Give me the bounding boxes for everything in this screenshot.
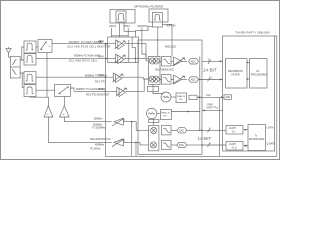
wire splitter to RX VCO — [153, 92, 163, 94]
svg-text:DAC: DAC — [179, 144, 184, 147]
wire row A — [52, 43, 116, 45]
svg-text:600MHz TO 6GHz BND: 600MHz TO 6GHz BND — [74, 55, 101, 58]
wire T2 input from TX row 1 — [64, 117, 111, 122]
arrowhead bus I — [220, 60, 223, 62]
wire TX splitter — [152, 119, 154, 126]
DAC I — [177, 128, 187, 133]
svg-text:PROCESSING: PROCESSING — [249, 139, 265, 141]
RX lowpass filter I box — [162, 57, 172, 67]
rx processing box — [250, 59, 268, 89]
wire filter FB1a to switch SW1 — [36, 46, 38, 48]
svg-text:FRAC-N: FRAC-N — [161, 112, 170, 115]
wire F2 left leg — [136, 27, 153, 37]
decimation filter box — [226, 59, 248, 89]
node spine tx bus — [199, 130, 201, 132]
wire row D to chip — [125, 79, 148, 91]
svg-text:RCV PT3: RCV PT3 — [95, 80, 106, 83]
RX lowpass filter Q box — [162, 75, 172, 85]
svg-text:600MHz TO 10GHz: 600MHz TO 10GHz — [85, 74, 108, 77]
diplexer divider — [10, 66, 20, 68]
node tx q — [245, 145, 247, 147]
wire row B to chip — [124, 57, 149, 59]
svg-text:ADC: ADC — [191, 60, 196, 63]
port leg MON — [127, 28, 129, 37]
port leg AAUX — [111, 28, 113, 37]
TX Q bus tick — [208, 143, 211, 147]
svg-text:Q DATA: Q DATA — [267, 143, 276, 146]
antenna ANT1 — [6, 47, 11, 57]
wire LPF I to DAC I — [171, 129, 177, 131]
page background — [0, 0, 280, 160]
TX mixer Q circle — [150, 142, 156, 148]
filter FB2b glyph — [26, 87, 34, 94]
wire T1 output up to FB2b — [30, 97, 48, 106]
wire row B — [36, 57, 116, 59]
wire TX row 1 — [123, 122, 148, 131]
arrow decim to rx proc top — [247, 62, 249, 64]
wire TX row 2 — [123, 142, 148, 145]
svg-text:FILTER: FILTER — [232, 74, 240, 77]
PLL1 box — [176, 93, 187, 103]
node row C — [105, 76, 107, 78]
LNA row A — [115, 40, 126, 50]
svg-text:ADC: ADC — [191, 79, 196, 82]
long routing wire around the bottom and right — [105, 36, 276, 156]
wire DIP/2TR down into chip — [142, 28, 146, 58]
wire VCO to PLL1 — [171, 96, 176, 98]
wire SW1 down to junction — [46, 53, 48, 98]
transceiver chip box — [138, 40, 202, 154]
svg-text:DC2 AND RCV0 CELL MONITOR: DC2 AND RCV0 CELL MONITOR — [68, 46, 111, 49]
svg-text:OPTIONAL FILTERS: OPTIONAL FILTERS — [134, 4, 163, 8]
wire DAC I to chip edge — [187, 129, 202, 131]
optional filter bank F1 outer box — [110, 10, 135, 24]
wire LPF Q to VGA Q — [160, 79, 174, 81]
RX I data bus to host — [202, 60, 223, 62]
svg-text:MSC102: MSC102 — [165, 45, 176, 49]
svg-text:PROCESSING: PROCESSING — [251, 74, 267, 77]
node TX I bus — [201, 130, 203, 132]
wire SW2 out to row D — [70, 88, 74, 91]
arrowhead bus Q — [220, 79, 223, 81]
optional filter F1 element — [116, 11, 126, 22]
wire splitter to mixers — [152, 85, 154, 87]
ADC I — [189, 59, 199, 64]
TX LPF Q glyph — [163, 143, 170, 147]
clock spine vertical — [199, 57, 201, 131]
wire TX VCO to PLL2 — [157, 113, 161, 115]
switch SW1 box — [38, 40, 52, 53]
bundle wire inside LNA block — [128, 40, 130, 62]
wire FB2b out to switch SW2 — [36, 89, 55, 91]
diplexer highpass glyph — [12, 60, 17, 65]
wire row D — [74, 90, 117, 92]
wire diplexer bottom out — [20, 73, 24, 87]
filter FB1a glyph — [26, 43, 34, 50]
junction node vertical row A — [105, 43, 107, 45]
PLL2 box — [160, 110, 171, 120]
svg-text:GPIO: GPIO — [207, 103, 213, 106]
optional filter bank F2 outer box — [149, 9, 168, 22]
filter FB2a — [24, 72, 36, 84]
arrowhead GPIO — [202, 109, 205, 111]
switch SW2 symbol — [59, 86, 69, 94]
TX 0/90 phase splitter — [149, 119, 159, 122]
svg-text:RXM: RXM — [98, 88, 103, 91]
svg-text:TO 500MHz: TO 500MHz — [92, 127, 106, 130]
node TX row 2 — [135, 142, 137, 144]
wire row C — [36, 76, 114, 78]
TX I bus tick — [208, 128, 211, 132]
RX LPF Q glyph — [163, 77, 170, 81]
svg-text:TO 6GHz: TO 6GHz — [90, 148, 101, 151]
filter FB1b glyph — [26, 56, 34, 63]
clock source box — [224, 95, 231, 100]
node row D — [105, 91, 107, 93]
svg-text:14-BIT: 14-BIT — [198, 136, 212, 141]
svg-text:14-BIT: 14-BIT — [229, 144, 236, 146]
svg-text:MON: MON — [124, 24, 130, 28]
node PLL2 out — [187, 111, 189, 113]
node spine bus Q — [199, 79, 201, 81]
TX Q bus from host — [202, 144, 226, 146]
TX mixer I circle — [151, 127, 157, 133]
svg-text:Tx Q: Tx Q — [232, 147, 237, 149]
diplexer lowpass glyph — [12, 70, 17, 75]
wire F1 right leg down — [123, 23, 125, 31]
svg-text:AAUX: AAUX — [109, 24, 116, 28]
VGA Q triangle — [173, 75, 186, 84]
switch SW1 symbol — [41, 42, 51, 50]
diplexer box — [10, 56, 20, 78]
svg-text:G: G — [47, 114, 49, 116]
wire row A to chip — [124, 44, 149, 61]
VGA I triangle — [173, 57, 186, 66]
RX quadrature mixer box — [149, 57, 161, 85]
svg-text:THIRD-PARTY [BB/SW]: THIRD-PARTY [BB/SW] — [236, 31, 270, 35]
wire T1 input from TX row 2 — [48, 117, 111, 142]
node TX row 1 — [131, 121, 133, 123]
TX I bus from host — [202, 129, 226, 131]
wire F2 bottom leg into chip — [157, 27, 159, 57]
wire LPF Q to DAC Q — [171, 144, 177, 146]
svg-text:DIP/2TR: DIP/2TR — [138, 24, 148, 28]
optional filter F2 element — [153, 13, 163, 28]
wire row C to chip — [122, 77, 149, 79]
image border frame — [1, 1, 280, 160]
wire F1 left leg down to LNA block — [119, 23, 121, 37]
svg-text:I DATA: I DATA — [267, 127, 275, 130]
svg-text:RCV PT2 MONITOR: RCV PT2 MONITOR — [86, 94, 109, 97]
wire VGA Q to ADC Q — [182, 79, 187, 81]
TX LPF I glyph — [163, 128, 170, 132]
tx processing box — [248, 125, 266, 151]
RX mixer Q circles — [149, 76, 159, 82]
bus I width tick — [208, 60, 211, 64]
filter F2 bandpass glyph — [154, 14, 161, 20]
TX driver amp row 2 — [112, 139, 124, 147]
svg-text:DAC: DAC — [179, 129, 184, 132]
arrow decim to rx proc bottom — [247, 78, 249, 80]
TX lowpass filter Q box — [162, 140, 172, 149]
wire PLL2 right to clock spine — [171, 111, 199, 113]
14-bit Tx Q box — [226, 142, 243, 151]
wire tx proc to tx Q box — [245, 145, 248, 147]
bundle wire jog inside LNA block — [132, 37, 135, 63]
vertical routing wire stub into host — [219, 97, 221, 156]
RX Q data bus to host — [199, 79, 223, 81]
DAC Q — [177, 142, 187, 147]
TX driver amp row 1 — [112, 118, 124, 126]
wire VGA I to ADC I — [182, 60, 187, 62]
TX lowpass filter I box — [162, 126, 172, 135]
RX 0/90 phase splitter — [148, 87, 159, 92]
svg-text:(4-BIT TTL): (4-BIT TTL) — [207, 107, 219, 109]
svg-text:MXR IN: MXR IN — [166, 23, 175, 27]
filter FB2b — [24, 85, 36, 97]
wire jog upper h2 — [124, 30, 136, 32]
ADC Q — [189, 77, 199, 82]
TX quadrature mixer box — [149, 125, 159, 150]
RX LPF I glyph — [163, 59, 170, 63]
svg-text:FRAC-N: FRAC-N — [177, 95, 186, 98]
PA amplifier T1 — [44, 106, 53, 117]
PA amplifier T2 — [60, 106, 70, 117]
svg-text:14-BIT: 14-BIT — [203, 68, 217, 73]
node bundle row B — [135, 58, 137, 60]
svg-text:DC2 AND RCH 50: DC2 AND RCH 50 — [90, 138, 111, 141]
wire DAC Q to chip edge — [187, 144, 202, 146]
bus Q width tick — [208, 78, 211, 82]
svg-text:Tx I: Tx I — [232, 131, 236, 133]
svg-text:14-BIT: 14-BIT — [229, 128, 236, 130]
svg-text:RXM: RXM — [98, 74, 103, 77]
svg-text:DC2 AND RCV0 CELL: DC2 AND RCV0 CELL — [69, 59, 98, 62]
RX VCO oscillator — [161, 92, 171, 102]
GPIO wire — [203, 109, 223, 111]
node TX Q bus — [201, 144, 203, 146]
wire jog lower h1 — [112, 35, 129, 37]
svg-text:450MHz: 450MHz — [95, 143, 105, 146]
14-bit Tx I box — [226, 126, 243, 135]
filter FB2a glyph — [26, 74, 34, 81]
filter FB1b — [24, 54, 36, 65]
TX VCO oscillator — [147, 108, 157, 118]
svg-text:MULTIMODE AGC: MULTIMODE AGC — [155, 69, 174, 72]
svg-text:G: G — [63, 114, 65, 116]
wire F2 output right leg — [162, 24, 172, 56]
arrow row B — [105, 57, 108, 59]
arrow row A — [105, 43, 108, 45]
filter F1 bandpass glyph — [117, 14, 124, 20]
wire crystal box to edge — [197, 96, 202, 98]
svg-text:500kHz: 500kHz — [94, 117, 103, 120]
RX mixer I circles — [149, 58, 159, 64]
wire LPF I to VGA I — [160, 60, 174, 62]
crystal driver box — [189, 95, 197, 99]
wire diplexer top out — [20, 47, 24, 60]
switch SW2 box — [55, 85, 71, 97]
LNA row B — [115, 54, 126, 64]
wire T2 output up to SW2 — [63, 97, 65, 106]
clock wire — [202, 96, 224, 98]
node spine clk — [199, 97, 201, 99]
LNA row D — [116, 87, 127, 97]
svg-text:CLK: CLK — [206, 94, 211, 97]
LNA block box — [108, 37, 139, 63]
filter FB1a — [24, 41, 36, 53]
vertical wire TX2 node to routing — [135, 142, 137, 156]
third party host box — [223, 36, 275, 151]
LNA row C — [112, 73, 123, 83]
svg-text:24M: 24M — [225, 97, 230, 99]
wire tx proc to tx I box — [245, 129, 248, 131]
vertical wire TX rows — [131, 122, 133, 156]
